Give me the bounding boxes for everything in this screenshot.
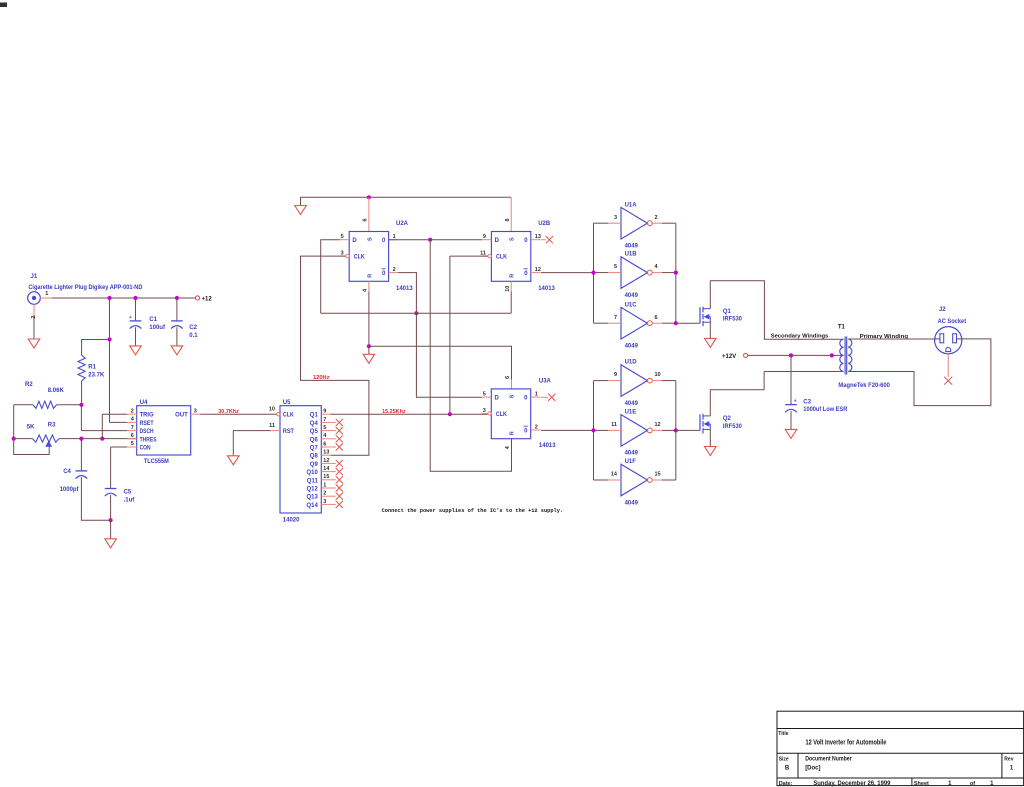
U1A output stub — [652, 222, 662, 224]
svg-text:C4: C4 — [63, 469, 71, 475]
U1B output bubble — [647, 270, 652, 275]
wire +12 rail to C1 — [135, 298, 137, 320]
U1D output stub — [652, 380, 662, 382]
svg-text:S: S — [367, 237, 373, 241]
svg-text:14: 14 — [611, 472, 618, 478]
wire +12 rail from J1 to +12 terminal — [52, 297, 195, 299]
wire C4 bottom — [81, 477, 110, 520]
wire C3 to ground — [790, 411, 792, 430]
U2B CLK bubble — [488, 254, 491, 257]
svg-text:Q14: Q14 — [306, 503, 318, 509]
svg-text:2: 2 — [131, 408, 134, 414]
svg-text:R2: R2 — [25, 382, 33, 388]
wire Q1 net down to U3A R — [430, 240, 511, 472]
wire U2B Q stub to X — [541, 239, 546, 241]
wire ground stem U2A R — [368, 346, 370, 354]
svg-text:100uf: 100uf — [149, 325, 166, 331]
svg-text:12: 12 — [655, 422, 661, 428]
J2 ground notch — [946, 347, 951, 351]
svg-text:15.25Khz: 15.25Khz — [382, 409, 406, 415]
capacitor C2 plates — [171, 320, 183, 322]
svg-text:MagneTek F20-600: MagneTek F20-600 — [838, 383, 890, 389]
svg-text:IRF530: IRF530 — [723, 424, 743, 430]
svg-text:RSET: RSET — [140, 421, 154, 427]
U3A S pin stub — [511, 379, 513, 389]
svg-text:Q5: Q5 — [310, 429, 319, 435]
wire U3A Qbar to lower inverter rail — [541, 429, 594, 431]
svg-text:OUT: OUT — [175, 413, 188, 419]
U2A D pin stub — [340, 239, 350, 241]
svg-text:4049: 4049 — [625, 451, 639, 457]
U5 pin Q9 stub — [321, 462, 330, 464]
svg-text:D: D — [495, 396, 500, 402]
svg-text:U1E: U1E — [625, 410, 637, 416]
svg-text:B: B — [785, 765, 790, 771]
svg-text:U1C: U1C — [625, 302, 638, 308]
U2A Qbar pin stub — [389, 272, 399, 274]
svg-text:THRES: THRES — [140, 437, 157, 443]
U1F output bubble — [647, 478, 652, 483]
transformer T1 primary winding — [848, 339, 852, 372]
wire U2A D left and down — [321, 240, 340, 314]
svg-text:Sunday, December 26, 1999: Sunday, December 26, 1999 — [813, 781, 891, 787]
ground under U5 RST — [228, 456, 240, 465]
svg-text:D: D — [352, 238, 357, 244]
wire U2B CLK left — [450, 255, 488, 257]
node junction R1 top tap — [107, 337, 111, 341]
wire upper inverter output rail — [675, 223, 677, 323]
node junction 15.25Khz / U2B CLK branch — [448, 412, 452, 416]
U1C output bubble — [647, 321, 652, 326]
wire U2B S stub — [510, 197, 512, 231]
title block divider doc/rev — [1001, 753, 1003, 778]
svg-text:Connect the power supplies of: Connect the power supplies of the IC's t… — [382, 507, 563, 514]
U5 pin Q8 stub — [321, 454, 330, 456]
wire +12 rail to C2 — [176, 298, 178, 320]
svg-text:0: 0 — [524, 396, 528, 402]
connector J1 body — [28, 292, 41, 305]
page corner mark — [0, 3, 7, 8]
wire upper inverter input rail — [593, 223, 595, 323]
wire U5 Q14 stub to X — [331, 503, 336, 505]
transformer T1 core lines — [844, 337, 846, 375]
resistor R2 body — [33, 401, 57, 408]
svg-text:4: 4 — [505, 445, 511, 449]
svg-text:4: 4 — [363, 288, 369, 292]
ground under C4/C5 — [105, 539, 117, 548]
U3A CLK pin stub — [482, 413, 488, 415]
svg-text:14013: 14013 — [538, 286, 555, 292]
wire +12 vertical to RSET and R1 tap — [109, 298, 111, 422]
svg-text:S: S — [510, 394, 516, 398]
wire CON — [111, 446, 127, 448]
svg-text:CON: CON — [140, 446, 151, 452]
wire Q1 drain to transformer secondary top — [710, 281, 843, 339]
svg-text:5: 5 — [614, 264, 617, 270]
no-connect X on U5 Q6 — [336, 435, 343, 442]
wire J1 pin2 to ground — [33, 315, 35, 339]
wire U1C input — [594, 322, 609, 324]
wire +12V to transformer center tap — [748, 354, 844, 356]
svg-text:8: 8 — [505, 218, 511, 221]
svg-text:J2: J2 — [939, 307, 946, 313]
svg-text:TRIG: TRIG — [140, 413, 154, 419]
wire U5 Q5 stub to X — [331, 430, 336, 432]
node junction D/Qbar net cross — [414, 311, 418, 315]
svg-text:4049: 4049 — [625, 344, 639, 350]
U5 pin Q10 stub — [321, 471, 330, 473]
wire D/Qbar net horizontal — [321, 312, 512, 314]
U1C output stub — [652, 322, 662, 324]
wire U1F input — [594, 479, 609, 481]
wire to Q1 gate — [676, 322, 700, 324]
wire U2A Qbar right and down to U3A D — [398, 273, 482, 398]
wire U5 Q7 stub to X — [331, 446, 336, 448]
svg-text:Q2: Q2 — [723, 416, 732, 422]
wire RSET — [110, 421, 128, 423]
wire to ground stem — [110, 520, 112, 539]
U1E input stub — [608, 429, 621, 431]
wire U5 Q6 stub to X — [331, 438, 336, 440]
svg-text:CLK: CLK — [496, 255, 508, 261]
svg-text:6: 6 — [131, 433, 134, 439]
terminal +12V circle — [744, 353, 748, 357]
transistor Q2 gate bar — [699, 414, 701, 430]
no-connect X on U5 Q11 — [336, 476, 343, 483]
wire U1E output — [662, 429, 676, 431]
resistor R1 body — [78, 355, 85, 381]
svg-text:14013: 14013 — [396, 286, 413, 292]
R3 wiper arrow — [45, 441, 52, 447]
wire U1A input — [594, 222, 609, 224]
svg-text:Q9: Q9 — [310, 462, 319, 468]
svg-text:8.06K: 8.06K — [48, 388, 65, 394]
wire U2A R to ground junction — [368, 292, 370, 347]
wire U5 Q9 stub to X — [331, 462, 336, 464]
node junction +12 rail / RSET branch — [107, 296, 111, 300]
svg-text:4: 4 — [655, 264, 659, 270]
wire R3 right to THRES — [59, 438, 137, 440]
svg-text:+12: +12 — [202, 296, 213, 302]
wire TRIG tie down to THRES — [101, 414, 103, 438]
Q2 drain lead — [704, 415, 711, 417]
ground under Q1 source — [705, 338, 717, 347]
node junction R1/R2/DSCH — [79, 403, 83, 407]
title block outer border — [777, 711, 1024, 785]
node junction upper input rail — [591, 271, 595, 275]
svg-text:U1F: U1F — [625, 459, 637, 465]
inverter U1A triangle — [621, 207, 647, 239]
U1B output stub — [652, 272, 662, 274]
svg-text:Q13: Q13 — [306, 495, 318, 501]
svg-text:U2B: U2B — [538, 221, 551, 227]
svg-text:10: 10 — [655, 372, 661, 378]
capacitor C5 plates — [105, 488, 117, 490]
svg-text:R1: R1 — [88, 365, 96, 371]
wire U5 Q12 stub to X — [331, 487, 336, 489]
wire U5 Q8 to U2A CLK 120Hz net — [301, 256, 369, 455]
J2 right slot — [953, 334, 957, 343]
svg-text:AC Socket: AC Socket — [938, 319, 967, 325]
U1A input stub — [608, 222, 621, 224]
node junction +12 rail / C2 — [175, 296, 179, 300]
wire DSCH up to R1/R2 junction — [80, 405, 82, 431]
svg-text:Sheet: Sheet — [914, 781, 929, 787]
Q1 substrate lead with arrow — [706, 316, 711, 318]
node junction THRES / TRIG tie — [100, 437, 104, 441]
no-connect X on U5 Q10 — [336, 468, 343, 475]
wire Q2 source to ground — [709, 429, 711, 446]
no-connect X on U3A Q — [548, 394, 555, 401]
svg-text:11: 11 — [269, 423, 275, 429]
svg-text:11: 11 — [611, 422, 617, 428]
svg-text:1: 1 — [1010, 765, 1014, 771]
wire primary top to J2 — [848, 338, 934, 340]
no-connect X on U5 Q5 — [336, 427, 343, 434]
svg-text:Q4: Q4 — [310, 421, 319, 427]
flip-flop U2B body — [491, 232, 530, 282]
U2A Q pin stub — [389, 239, 399, 241]
ground under J1 — [28, 339, 40, 348]
wire to Q2 gate — [676, 429, 700, 431]
svg-text:Q1: Q1 — [310, 413, 319, 419]
wire U2A CLK from 120Hz — [340, 255, 346, 257]
node junction U2A R ground — [367, 344, 371, 348]
J1 pin 2 stub — [33, 304, 35, 315]
counter U5 14020 body — [280, 406, 321, 513]
wire ground net to U3A S — [369, 346, 512, 379]
node junction R3 right / C4 — [79, 437, 83, 441]
svg-text:S: S — [510, 237, 516, 241]
connector J2 body circle — [935, 327, 962, 354]
svg-text:3: 3 — [614, 215, 617, 221]
title block divider size/doc — [797, 753, 799, 778]
wire Q2 drain to transformer secondary bottom — [710, 372, 764, 416]
svg-text:of: of — [970, 781, 975, 787]
title block line above date row — [777, 777, 1024, 779]
svg-text:6: 6 — [655, 315, 658, 321]
svg-text:5: 5 — [131, 441, 134, 447]
node junction top rail / U2A S — [367, 195, 371, 199]
wire R2 left leg down to R3 — [13, 405, 15, 439]
node junction +12 rail / C1 — [133, 296, 137, 300]
node junction C4/C5 ground — [109, 518, 113, 522]
svg-text:2: 2 — [655, 215, 658, 221]
U2B Qbar pin stub — [531, 272, 541, 274]
wire U1B output — [662, 272, 676, 274]
no-connect X on U2B Q — [546, 236, 553, 243]
inverter U1B triangle — [621, 257, 647, 289]
svg-text:Secondary Windings: Secondary Windings — [771, 334, 829, 340]
svg-text:C2: C2 — [189, 325, 197, 331]
wire U2B R down to D/Qbar net — [510, 292, 512, 314]
wire C5 bottom — [110, 495, 112, 520]
Q2 source lead — [704, 428, 711, 430]
svg-text:.1uf: .1uf — [124, 497, 136, 503]
svg-text:Size: Size — [779, 756, 789, 762]
svg-text:0.1: 0.1 — [189, 333, 198, 339]
wire U5 Q10 stub to X — [331, 471, 336, 473]
no-connect X on U5 Q14 — [336, 501, 343, 508]
wire J2 right pin loop to primary bottom — [848, 339, 991, 406]
U1E output bubble — [647, 428, 652, 433]
wire U5 Q13 stub to X — [331, 495, 336, 497]
svg-text:Q6: Q6 — [310, 437, 319, 443]
U5 pin Q11 stub — [321, 479, 330, 481]
wire Q1 source to ground — [709, 322, 711, 338]
Q1 source lead — [704, 321, 711, 323]
wire U1D output — [662, 380, 676, 382]
U1A output bubble — [647, 221, 652, 226]
Q1 drain lead — [704, 308, 711, 310]
wire U5 Q11 stub to X — [331, 479, 336, 481]
Q2 channel segments — [702, 414, 704, 420]
svg-text:0: 0 — [382, 238, 386, 244]
svg-text:+12V: +12V — [722, 354, 736, 360]
svg-text:+: + — [794, 398, 797, 404]
U3A D pin stub — [482, 396, 492, 398]
svg-text:Rev: Rev — [1004, 756, 1013, 762]
wire R2 right — [57, 404, 82, 406]
svg-text:1000pf: 1000pf — [60, 487, 80, 493]
node junction lower output rail — [674, 428, 678, 432]
U5 pin Q7 stub — [321, 446, 330, 448]
svg-text:0: 0 — [524, 271, 528, 277]
wire R3 wiper feedback loop — [14, 439, 50, 455]
wire U1B input — [594, 272, 609, 274]
transistor Q1 gate bar — [699, 307, 701, 323]
wire CON down to C5 — [110, 447, 112, 488]
wire lower inverter input rail — [593, 381, 595, 480]
wire U2B R stub down — [510, 281, 512, 291]
wire U1C output — [662, 322, 676, 324]
wire RST to ground — [233, 431, 270, 456]
ground under U2A R — [363, 354, 375, 363]
svg-text:U1A: U1A — [625, 202, 638, 208]
wire U1F output — [662, 479, 676, 481]
U3A CLK bubble — [488, 412, 491, 415]
U4 pin stub OUT — [191, 413, 201, 415]
wire U2B Qbar to inverter rail — [541, 272, 594, 274]
capacitor C3 plates — [785, 404, 797, 406]
svg-text:0: 0 — [524, 429, 528, 435]
svg-text:6: 6 — [505, 376, 511, 379]
U5 pin Q1 stub — [321, 413, 330, 415]
svg-text:0: 0 — [524, 238, 528, 244]
svg-text:Q12: Q12 — [306, 487, 318, 493]
svg-text:4049: 4049 — [625, 500, 639, 506]
inverter U1F triangle — [621, 464, 647, 496]
svg-text:U3A: U3A — [539, 378, 552, 384]
svg-text:R: R — [510, 431, 516, 435]
svg-text:IRF530: IRF530 — [723, 317, 743, 323]
svg-text:Q8: Q8 — [310, 454, 319, 460]
wire R3 left — [14, 438, 33, 440]
wire C2 to ground — [176, 327, 178, 346]
svg-text:23.7K: 23.7K — [88, 373, 105, 379]
svg-text:[Doc]: [Doc] — [805, 765, 820, 771]
U1E output stub — [652, 429, 662, 431]
wire secondary bottom to winding — [764, 371, 843, 373]
node junction center tap at winding — [830, 353, 834, 357]
U5 pin Q4 stub — [321, 421, 330, 423]
svg-text:Date:: Date: — [779, 781, 793, 787]
U5 CLK bubble — [277, 413, 280, 416]
svg-text:4049: 4049 — [625, 401, 639, 407]
svg-text:0: 0 — [382, 271, 386, 277]
capacitor C4 plates — [76, 470, 88, 472]
Q1 channel segments — [702, 307, 704, 313]
wire U3A Q stub to X — [541, 396, 548, 398]
J2 left slot — [940, 334, 944, 343]
svg-text:5K: 5K — [27, 425, 35, 431]
U3A Q pin stub — [531, 396, 541, 398]
svg-text:10: 10 — [505, 286, 511, 292]
U3A Qbar pin stub — [531, 429, 541, 431]
svg-text:CLK: CLK — [496, 412, 508, 418]
wire C1 to ground — [135, 327, 137, 346]
svg-text:R3: R3 — [48, 423, 56, 429]
U2A CLK pin stub — [340, 255, 346, 257]
svg-text:R: R — [510, 274, 516, 278]
node junction upper output rail at U1C — [674, 321, 678, 325]
U1D input stub — [608, 380, 621, 382]
wire R1 bottom to junction — [81, 381, 83, 405]
wire J2 bottom pin — [947, 354, 949, 377]
svg-text:RST: RST — [283, 429, 294, 435]
svg-text:R: R — [367, 274, 373, 278]
ground under C3 — [785, 429, 797, 438]
node junction R3 left / wiper loop — [12, 437, 16, 441]
svg-text:3: 3 — [194, 408, 197, 414]
node junction center tap / C3 — [789, 353, 793, 357]
svg-text:Q10: Q10 — [306, 470, 318, 476]
U5 pin Q12 stub — [321, 487, 330, 489]
svg-text:CLK: CLK — [354, 255, 366, 261]
U4 pin stubs left — [127, 413, 137, 415]
U1F output stub — [652, 479, 662, 481]
no-connect X on U5 Q12 — [336, 484, 343, 491]
svg-text:+: + — [129, 315, 132, 321]
svg-text:6: 6 — [363, 218, 369, 221]
svg-text:J1: J1 — [31, 274, 38, 280]
wire U2A Q to U2B D — [389, 239, 482, 241]
potentiometer R3 body — [33, 435, 60, 442]
title block line below top strip — [777, 728, 1024, 730]
op-amp/timer U4 TLC555M body — [137, 406, 191, 455]
svg-text:DSCH: DSCH — [140, 429, 154, 435]
no-connect X on U5 Q9 — [336, 460, 343, 467]
wire lower inverter output rail — [675, 381, 677, 480]
svg-text:7: 7 — [614, 315, 617, 321]
U5 RST stub — [271, 430, 280, 432]
svg-text:4049: 4049 — [625, 244, 639, 250]
U5 pin Q6 stub — [321, 438, 330, 440]
wire TRIG — [102, 413, 127, 415]
svg-text:4049: 4049 — [625, 293, 639, 299]
U5 pin Q13 stub — [321, 495, 330, 497]
flip-flop U2A body — [349, 232, 388, 282]
svg-text:CLK: CLK — [283, 413, 295, 419]
no-connect X on U5 Q4 — [336, 419, 343, 426]
svg-text:U2A: U2A — [396, 221, 409, 227]
U2B CLK pin stub — [482, 255, 488, 257]
svg-text:T1: T1 — [838, 324, 846, 330]
svg-text:Title: Title — [778, 731, 788, 737]
svg-text:9: 9 — [614, 372, 617, 378]
U1B input stub — [608, 272, 621, 274]
svg-text:U4: U4 — [140, 400, 148, 406]
